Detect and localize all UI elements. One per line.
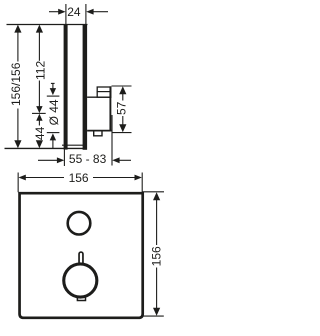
- svg-text:Ø 44: Ø 44: [47, 99, 61, 125]
- svg-text:57: 57: [114, 101, 128, 115]
- svg-text:156/156: 156/156: [9, 62, 23, 106]
- svg-text:156: 156: [150, 246, 164, 266]
- svg-text:44: 44: [33, 126, 47, 140]
- svg-text:112: 112: [33, 61, 47, 80]
- svg-text:55 - 83: 55 - 83: [69, 152, 107, 166]
- svg-text:24: 24: [67, 5, 81, 19]
- svg-text:156: 156: [69, 171, 89, 185]
